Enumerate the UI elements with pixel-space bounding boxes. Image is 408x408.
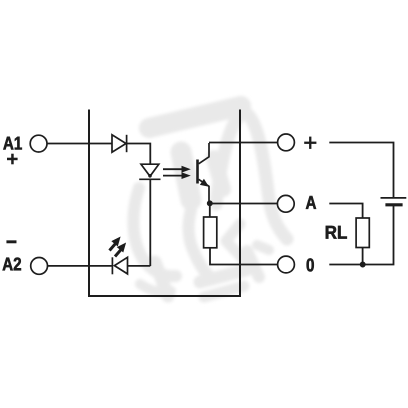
resistor (output) [204,217,217,248]
label A1 [3,137,22,150]
terminal A [277,195,294,212]
module outline [89,110,240,297]
optocoupler LED [139,164,160,179]
wire A1 to diode [47,143,112,145]
diode (series input) [112,135,127,152]
wire collector to terminal + [209,142,278,144]
label A2 [3,257,21,270]
wire A node to terminal A [210,203,278,205]
wire resistor to 0 rail [210,248,277,265]
battery (external supply) [381,198,407,205]
terminal A2 [31,258,48,275]
wire A2 to LED indicator [48,265,113,267]
label + (output) [304,137,316,149]
junction (RL / 0 node) [360,262,365,267]
wire RL to 0 rail [362,248,364,265]
resistor RL [356,218,369,248]
terminal A1 [30,135,47,152]
terminal + [278,134,295,151]
optocoupler light arrows [163,166,191,179]
junction (emitter / A node) [207,201,212,206]
wire LED indicator to opto cathode node [128,265,150,267]
wire A node to resistor [209,204,211,218]
wire battery to 0 rail [329,206,393,265]
label RL [326,226,347,239]
label - (input polarity) [7,241,17,243]
label + (input polarity) [7,154,18,165]
wire diode to optocoupler LED [127,144,150,165]
LED indicator diode [112,257,127,274]
terminal 0 [278,256,295,273]
LED indicator emission arrows [110,238,126,257]
wire terminal + to battery [329,143,393,198]
label 0 (output) [307,258,314,271]
label A (output) [306,196,316,209]
wire terminal A to RL [329,204,362,219]
wire optocoupler LED cathode to A2 rail [149,179,151,266]
phototransistor [198,143,210,203]
